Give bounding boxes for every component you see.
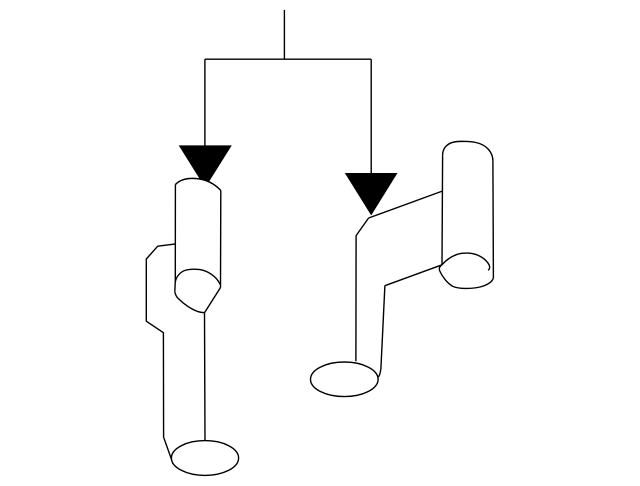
pipe 1 down-tube right edge: [204, 313, 207, 441]
leader right drop line: [370, 59, 372, 174]
arrow 1 (left arrowhead): [179, 145, 232, 187]
pipe 2 lower diagonal edge: [385, 265, 442, 286]
leader horizontal line: [205, 58, 371, 60]
muffler right edge: [492, 161, 495, 278]
muffler bottom cap arc: [439, 265, 493, 289]
muffler body fill: [442, 141, 494, 288]
pipe 1 left edge: [174, 185, 177, 292]
pipe 1 opening rim upper arc: [175, 269, 220, 284]
pipe 1 right edge: [220, 191, 222, 288]
pipe 2 left edge: [356, 218, 369, 361]
pipe 1 body fill (hides arrow tip): [175, 178, 221, 312]
pipe 1 bracket and left outline: [146, 244, 175, 464]
muffler opening rim with curl: [442, 253, 490, 270]
muffler left edge: [441, 155, 444, 264]
pipe 2 upper diagonal edge: [369, 191, 443, 218]
pipe 1 top cap arc: [175, 178, 220, 190]
arrow 2 (right arrowhead): [345, 173, 398, 215]
pipe 2 outlet ellipse: [311, 362, 379, 397]
pipe 1 outlet ellipse: [171, 441, 238, 476]
leader left drop line: [204, 59, 206, 146]
pipe 1 opening rim lower arc: [175, 292, 205, 313]
leader stem line: [283, 10, 285, 59]
pipe 2 down-tube right edge: [378, 286, 385, 378]
muffler top cap arc: [443, 141, 493, 161]
pipe 1 diagonal cut edge: [205, 288, 221, 313]
